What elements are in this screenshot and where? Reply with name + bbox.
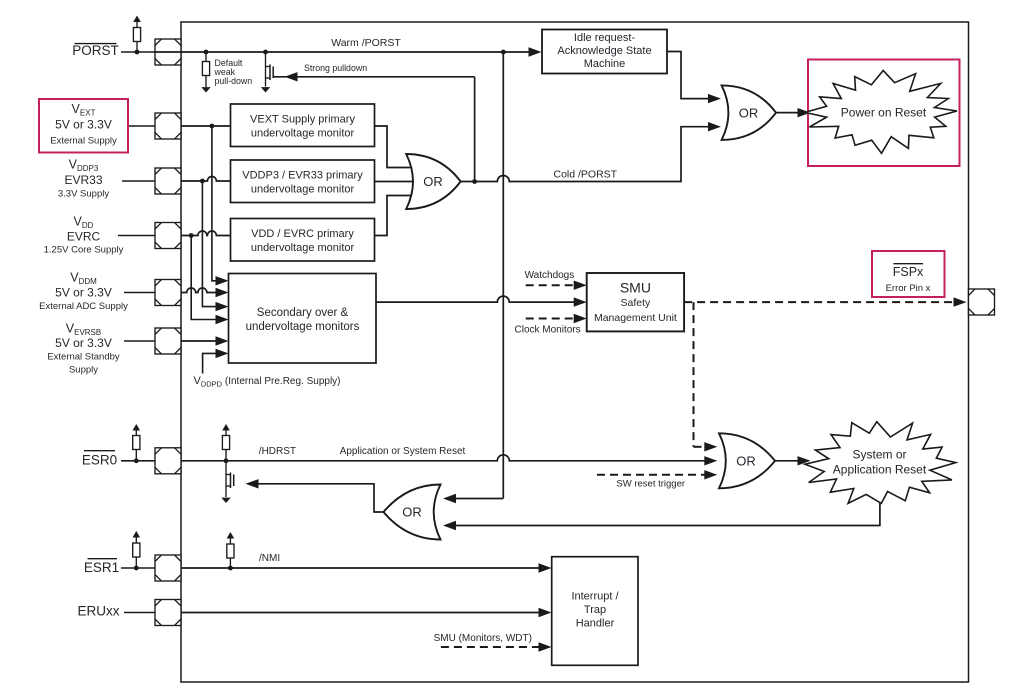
resistor ESR1 pull-up [133, 531, 141, 568]
svg-text:Interrupt /: Interrupt / [571, 591, 619, 603]
svg-text:Cold /PORST: Cold /PORST [554, 169, 618, 181]
svg-text:External Supply: External Supply [50, 136, 117, 147]
wire Clock Monitors to SMU (dashed) [526, 314, 587, 323]
svg-text:OR: OR [423, 174, 443, 189]
svg-text:VDD / EVRC primary: VDD / EVRC primary [251, 228, 354, 240]
resistor HDRST pull-up [222, 424, 230, 461]
wire SMU monitors WDT to Interrupt Trap Handler (dashed) [441, 642, 552, 651]
block VDD/EVRC primary undervoltage monitor [231, 219, 375, 262]
svg-text:undervoltage monitor: undervoltage monitor [251, 128, 355, 140]
svg-text:Management Unit: Management Unit [594, 312, 677, 324]
block Secondary over & undervoltage monitors [229, 274, 377, 364]
svg-text:5V or 3.3V: 5V or 3.3V [55, 118, 112, 132]
svg-text:VDDM: VDDM [70, 271, 97, 287]
svg-text:ESR1: ESR1 [84, 560, 119, 575]
block Idle request-Acknowledge State Machine [542, 30, 667, 74]
svg-text:Clock Monitors: Clock Monitors [515, 325, 581, 336]
burst Power on Reset [805, 71, 957, 154]
pin VDDP3 pad [155, 168, 181, 194]
wire SMU reset request branch down to OR4 (dashed) [694, 302, 718, 451]
block VEXT primary undervoltage monitor [231, 104, 375, 147]
block VDDP3/EVR33 primary undervoltage monitor [231, 160, 375, 203]
node VEXT label [50, 102, 117, 147]
svg-text:undervoltage monitor: undervoltage monitor [251, 242, 355, 254]
svg-text:Application or System Reset: Application or System Reset [340, 446, 466, 457]
svg-text:VEXT: VEXT [72, 102, 96, 118]
svg-text:OR: OR [739, 105, 759, 120]
svg-text:VDDP3: VDDP3 [69, 158, 99, 174]
svg-text:SMU (Monitors, WDT): SMU (Monitors, WDT) [434, 633, 532, 644]
wire VDD supply net (hops over VDDP3 and VEXT branches) [181, 231, 231, 236]
node VDD label [44, 215, 124, 256]
resistor default weak pull-down [201, 52, 210, 93]
wire VEXT supply net [181, 125, 231, 127]
wire VEXT label to pad [129, 125, 155, 127]
svg-text:VDDPD (Internal Pre.Reg. Suppl: VDDPD (Internal Pre.Reg. Supply) [194, 375, 341, 389]
node PORST label [72, 43, 119, 58]
wire ESR0 label to pad [121, 460, 155, 462]
wire Warm /PORST [155, 47, 542, 56]
wire ESR1 label to pad [121, 567, 155, 569]
svg-text:pull-down: pull-down [215, 76, 253, 86]
wire VDD monitor output to OR1 [375, 196, 412, 236]
svg-text:External ADC Supply: External ADC Supply [39, 301, 128, 312]
wire secondary monitors output to SMU (hop over PORST branch) [376, 296, 587, 307]
node ESR1 label [84, 559, 119, 575]
wire VDD branch to secondary monitor [191, 236, 228, 325]
svg-text:VDD: VDD [74, 215, 94, 231]
wire OR2 output to Power on Reset [776, 108, 811, 117]
svg-text:SW reset trigger: SW reset trigger [616, 479, 685, 490]
resistor NMI pull-up [227, 532, 235, 568]
svg-text:5V or 3.3V: 5V or 3.3V [55, 336, 112, 350]
block SMU Safety Management Unit [587, 273, 684, 331]
wire SW reset trigger to OR4 (dashed) [597, 470, 717, 479]
junction weak pull-down [204, 50, 209, 55]
wire ERUxx label to pad [124, 612, 155, 614]
svg-text:VEXT Supply primary: VEXT Supply primary [250, 114, 355, 126]
wire PORST label to pad [121, 51, 155, 53]
pin ESR0 pad [155, 448, 181, 474]
or-gate U4 (system/application reset OR) [719, 433, 775, 488]
wire OR3 output to HDRST pulldown gate [246, 479, 384, 512]
resistor PORST pull-up [133, 16, 141, 53]
transistor HDRST pulldown NMOS [221, 461, 233, 503]
pin VEVRSB pad [155, 328, 181, 354]
junction strong pulldown drain [263, 50, 268, 55]
svg-text:Machine: Machine [584, 58, 626, 70]
wire /HDRST Application or System Reset (hop over PORST branch) [181, 455, 717, 466]
svg-text:undervoltage monitor: undervoltage monitor [251, 184, 355, 196]
junction VDD branch [189, 233, 194, 238]
pin FSPx error pad [969, 289, 995, 315]
svg-text:EVRC: EVRC [67, 230, 101, 244]
wire VEVRSB label to pad [124, 340, 155, 342]
wire VDDP3 supply net (hop over VEXT branch) [181, 177, 231, 182]
svg-text:VEVRSB: VEVRSB [66, 322, 101, 338]
pin ERUxx pad [155, 600, 181, 626]
junction VEXT branch [210, 124, 215, 129]
junction ESR1 resistor [134, 566, 139, 571]
node VDDM label [39, 271, 128, 313]
svg-text:Error Pin x: Error Pin x [886, 283, 931, 294]
pin PORST pad [155, 39, 181, 65]
junction strong pulldown tap on Cold /PORST [472, 179, 477, 184]
wire VDDP3 branch to secondary monitor [202, 181, 228, 311]
wire VEVRSB to secondary monitor [181, 336, 229, 345]
or-gate U3 (warm reset OR, points left) [384, 485, 441, 540]
junction PORST resistor [135, 50, 140, 55]
svg-text:Strong pulldown: Strong pulldown [304, 63, 367, 73]
wire Cold /PORST (OR1 output to OR2 lower input) [461, 122, 721, 182]
node VDDP3 label [58, 158, 109, 200]
pin VDD pad [155, 223, 181, 249]
wire VDDP3 label to pad [122, 180, 155, 182]
highlight box FSPx (magenta) [872, 251, 945, 297]
wire VDDM label to pad [124, 292, 155, 294]
svg-text:Warm /PORST: Warm /PORST [331, 37, 401, 49]
wire VDD label to pad [118, 235, 155, 237]
junction HDRST resistor [224, 458, 229, 463]
svg-text:System or: System or [852, 447, 906, 461]
svg-text:ESR0: ESR0 [82, 452, 117, 467]
svg-text:3.3V Supply: 3.3V Supply [58, 189, 109, 200]
wire VDDP3 monitor output to OR1 [375, 181, 415, 183]
node FSPx label [886, 264, 931, 294]
wire vertical PORST branch down to low OR gate [443, 52, 503, 503]
svg-text:Power on Reset: Power on Reset [841, 106, 927, 120]
wire VEXT branch to secondary monitor [212, 126, 229, 285]
wire SMU output to FSPx pin (dashed) [684, 297, 966, 306]
junction NMI resistor [228, 566, 233, 571]
wire /NMI to Interrupt Trap Handler [181, 563, 552, 572]
label Default weak pull-down [214, 58, 253, 86]
svg-text:ERUxx: ERUxx [77, 604, 119, 619]
svg-text:VDDP3 / EVR33 primary: VDDP3 / EVR33 primary [242, 170, 363, 182]
svg-text:Watchdogs: Watchdogs [525, 270, 575, 281]
svg-text:EVR33: EVR33 [64, 173, 102, 187]
svg-text:/NMI: /NMI [259, 553, 280, 564]
wire OR4 output to System or Application Reset [775, 456, 811, 465]
chip boundary box [181, 22, 969, 682]
junction ESR0 resistor [134, 458, 139, 463]
wire strong pulldown gate (from primary OR output) [274, 72, 475, 181]
transistor strong pulldown NMOS [261, 52, 273, 93]
svg-text:undervoltage monitors: undervoltage monitors [246, 321, 360, 333]
svg-text:Trap: Trap [584, 604, 606, 616]
resistor ESR0 pull-up [133, 424, 141, 461]
svg-text:1.25V Core Supply: 1.25V Core Supply [44, 245, 124, 256]
wire ERUxx to Interrupt Trap Handler [181, 608, 552, 617]
pin ESR1 pad [155, 555, 181, 581]
wire Watchdogs to SMU (dashed) [526, 281, 587, 290]
wire VEXT monitor output to OR1 [375, 126, 412, 168]
svg-text:Safety: Safety [621, 297, 652, 309]
svg-text:Supply: Supply [69, 365, 98, 376]
svg-text:PORST: PORST [72, 43, 119, 58]
svg-text:Secondary over &: Secondary over & [257, 307, 349, 319]
svg-text:OR: OR [736, 454, 756, 469]
svg-text:Idle request-: Idle request- [574, 32, 635, 44]
highlight box Power on Reset (magenta) [808, 60, 960, 167]
highlight box VEXT (magenta) [39, 99, 128, 153]
block Interrupt / Trap Handler [552, 557, 638, 666]
wire idle machine output to OR2 top input [667, 52, 721, 104]
pin VEXT pad [155, 113, 181, 139]
svg-text:SMU: SMU [620, 280, 651, 296]
or-gate U2 (power on reset OR) [722, 85, 776, 139]
svg-text:/HDRST: /HDRST [259, 446, 296, 457]
burst System or Application Reset [805, 422, 956, 504]
node VEVRSB label [47, 322, 120, 376]
wire VDDM to secondary monitor (hops over VDD and VDDP3 branches) [181, 288, 229, 297]
svg-text:OR: OR [402, 505, 422, 520]
or-gate U1 (primary undervoltage OR) [406, 154, 460, 209]
svg-text:FSPx: FSPx [893, 265, 924, 279]
junction vertical branch on Warm /PORST [501, 50, 506, 55]
svg-text:Application Reset: Application Reset [833, 462, 927, 476]
svg-text:External Standby: External Standby [47, 352, 120, 363]
node ESR0 label [82, 451, 117, 468]
svg-text:5V or 3.3V: 5V or 3.3V [55, 286, 112, 300]
svg-text:Handler: Handler [576, 618, 615, 630]
junction VDDP3 branch [200, 179, 205, 184]
wire System/Application reset loop to OR3 lower input [443, 503, 880, 530]
wire VDDPD to secondary monitor [203, 349, 229, 374]
svg-text:Acknowledge State: Acknowledge State [557, 45, 651, 57]
pin VDDM pad [155, 280, 181, 306]
